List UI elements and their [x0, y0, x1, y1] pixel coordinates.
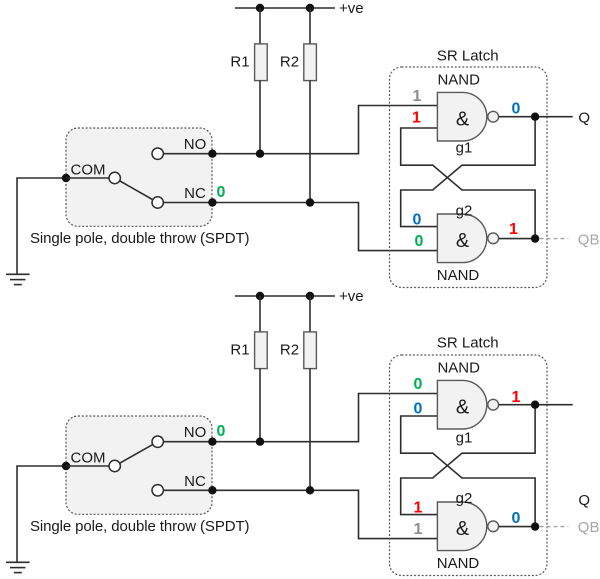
COM pole contact	[109, 460, 120, 471]
wire COM to ground	[17, 178, 66, 274]
wire cross-coupling Q to g2	[401, 117, 535, 227]
node COM junction	[62, 174, 70, 182]
junction NO-box	[208, 438, 216, 446]
svg-text:1: 1	[509, 221, 518, 238]
svg-text:0: 0	[217, 423, 226, 440]
svg-text:+ve: +ve	[339, 0, 364, 17]
wire NC net to g2 input	[163, 203, 437, 251]
wire R2 to NC line	[309, 369, 311, 491]
wire QB output	[499, 238, 535, 240]
COM pole contact	[109, 172, 120, 183]
junction NC-box	[208, 486, 216, 494]
junction rail-R1	[256, 4, 264, 12]
svg-text:SR Latch: SR Latch	[437, 335, 499, 352]
svg-text:Single pole, double throw (SPD: Single pole, double throw (SPDT)	[30, 230, 250, 247]
svg-text:Q: Q	[578, 110, 590, 127]
wire cross-coupling QB to g1	[401, 128, 535, 239]
svg-text:0: 0	[512, 101, 521, 118]
SR Latch box	[390, 67, 548, 288]
svg-text:1: 1	[412, 109, 421, 126]
junction NO-R1	[256, 438, 264, 446]
svg-text:QB: QB	[578, 232, 600, 249]
svg-text:1: 1	[414, 499, 423, 516]
svg-text:Q: Q	[578, 492, 590, 509]
svg-text:g2: g2	[456, 490, 473, 507]
svg-text:NAND: NAND	[437, 71, 480, 88]
+ve supply rail wire	[235, 295, 335, 297]
svg-text:Single pole, double throw (SPD: Single pole, double throw (SPDT)	[30, 518, 250, 535]
wire QB dashed	[540, 238, 569, 240]
svg-text:0: 0	[414, 376, 423, 393]
ground	[6, 562, 30, 572]
NC contact	[152, 485, 163, 496]
node QB junction	[531, 234, 539, 242]
svg-text:COM: COM	[71, 450, 106, 467]
svg-text:0: 0	[413, 212, 422, 229]
wire R2 to NC line	[309, 81, 311, 203]
wire rail to R2	[309, 296, 311, 332]
svg-text:COM: COM	[71, 162, 106, 179]
resistor R2	[304, 44, 317, 81]
NO contact	[152, 148, 163, 159]
junction NO-R1	[256, 150, 264, 158]
node Q junction	[531, 113, 539, 121]
nand gate g2	[437, 214, 498, 263]
svg-text:NAND: NAND	[437, 359, 480, 376]
wire cross-coupling QB to g1	[401, 416, 535, 527]
NC contact	[152, 197, 163, 208]
svg-text:&: &	[456, 397, 470, 419]
svg-text:g2: g2	[456, 203, 473, 220]
switch box SPDT	[66, 416, 212, 514]
nand gate g1	[437, 380, 498, 429]
svg-text:g1: g1	[456, 430, 473, 447]
junction NC-R2	[306, 486, 314, 494]
wire rail to R2	[309, 8, 311, 44]
svg-text:0: 0	[415, 233, 424, 250]
resistor R2	[304, 332, 317, 369]
svg-text:R2: R2	[280, 54, 299, 71]
svg-text:0: 0	[217, 184, 226, 201]
svg-text:g1: g1	[456, 140, 473, 157]
wire rail to R1	[259, 8, 261, 44]
junction rail-R1	[256, 292, 264, 300]
svg-text:NC: NC	[184, 473, 206, 490]
svg-text:&: &	[456, 518, 470, 540]
svg-text:R1: R1	[230, 54, 249, 71]
wire COM to ground	[17, 466, 66, 562]
junction rail-R2	[306, 292, 314, 300]
svg-text:1: 1	[512, 389, 521, 406]
svg-text:NAND: NAND	[437, 555, 480, 572]
wire NO net to g1 input	[163, 106, 437, 154]
wire Q output	[499, 116, 573, 118]
wire QB dashed	[540, 526, 569, 528]
switch lever COM-NC	[115, 178, 158, 203]
junction NC-box	[208, 198, 216, 206]
svg-text:R2: R2	[280, 342, 299, 359]
svg-text:&: &	[456, 109, 470, 131]
wire Q output	[499, 404, 573, 406]
svg-text:1: 1	[413, 88, 422, 105]
wire cross-coupling Q to g2	[401, 405, 535, 515]
junction NC-R2	[306, 198, 314, 206]
svg-text:NO: NO	[184, 136, 207, 153]
wire COM to pole	[66, 177, 115, 179]
wire NC net to g2 input	[163, 490, 437, 538]
ground	[6, 274, 30, 284]
node QB junction	[531, 522, 539, 530]
svg-text:NAND: NAND	[437, 267, 480, 284]
svg-text:+ve: +ve	[339, 288, 364, 305]
wire COM to pole	[66, 465, 115, 467]
junction NO-box	[208, 150, 216, 158]
wire R1 to NO line	[259, 81, 261, 154]
nand gate g1	[437, 92, 498, 141]
svg-text:QB: QB	[578, 519, 600, 536]
wire NO net to g1 input	[163, 394, 437, 442]
svg-text:R1: R1	[230, 342, 249, 359]
resistor R1	[255, 332, 268, 369]
wire rail to R1	[259, 296, 261, 332]
switch box SPDT	[66, 128, 212, 226]
svg-text:0: 0	[414, 401, 423, 418]
svg-text:1: 1	[414, 521, 423, 538]
resistor R1	[255, 44, 268, 81]
svg-text:NO: NO	[184, 424, 207, 441]
svg-text:&: &	[456, 230, 470, 252]
node COM junction	[62, 462, 70, 470]
junction rail-R2	[306, 4, 314, 12]
wire R1 to NO line	[259, 369, 261, 442]
+ve supply rail wire	[235, 7, 335, 9]
SR Latch box	[390, 355, 548, 576]
svg-text:0: 0	[512, 510, 521, 527]
svg-text:NC: NC	[184, 185, 206, 202]
switch lever COM-NO	[115, 442, 158, 466]
node Q junction	[531, 401, 539, 409]
NO contact	[152, 436, 163, 447]
wire QB output	[499, 526, 535, 528]
svg-text:SR Latch: SR Latch	[437, 48, 499, 65]
nand gate g2	[437, 502, 498, 551]
